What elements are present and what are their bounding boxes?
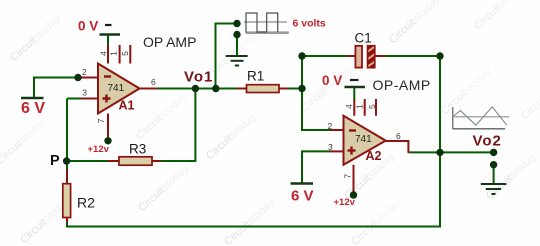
svg-text:P: P — [50, 153, 60, 169]
source ground terminal — [233, 31, 240, 38]
wire A2 output to Vo2 terminal — [408, 151, 493, 153]
power bar 6V (A2) — [291, 182, 314, 185]
minus sign A2 — [349, 129, 356, 131]
svg-text:R3: R3 — [129, 142, 146, 157]
node Vo1 — [192, 85, 199, 92]
svg-text:6 V: 6 V — [21, 100, 45, 117]
svg-text:2: 2 — [82, 67, 87, 77]
wire pin3 corner down to node P — [67, 99, 81, 162]
node +12v A1 — [104, 137, 111, 144]
wire A1 output to Vo1 and R1 — [157, 88, 238, 90]
pin 2 stub A2 — [330, 129, 344, 131]
earth ground below square-wave source — [226, 56, 248, 66]
wire 6V-A2 up to pin3 — [302, 151, 331, 182]
svg-text:0 V: 0 V — [322, 73, 342, 88]
svg-text:4: 4 — [344, 104, 354, 109]
wire C1 left rail — [302, 55, 348, 57]
svg-text:3: 3 — [82, 88, 87, 98]
wire C1 right rail — [384, 55, 440, 57]
svg-text:4: 4 — [99, 51, 109, 56]
op-amp U2 (A2 741) — [344, 116, 386, 165]
svg-text:1: 1 — [355, 104, 365, 109]
svg-text:+12v: +12v — [88, 144, 110, 155]
node Vo2 rail — [436, 149, 443, 156]
svg-text:Circuitstoday: Circuitstoday — [439, 65, 495, 117]
node C1 left rail — [298, 52, 305, 59]
wire A2 pin4 to 0V bar — [353, 87, 355, 100]
svg-text:Circuitstoday: Circuitstoday — [519, 70, 540, 122]
node R1/C1 left — [298, 85, 305, 92]
plus sign A1 — [103, 95, 111, 103]
svg-text:0 V: 0 V — [78, 19, 98, 34]
wire P to R3 left — [67, 160, 111, 162]
wire R3 right to feedback corner — [160, 89, 195, 162]
svg-text:6 volts: 6 volts — [293, 18, 326, 30]
svg-text:6 V: 6 V — [291, 188, 314, 205]
Vo2 terminal — [490, 149, 497, 156]
R3 stubs — [108, 160, 161, 162]
capacitor C1 left plate — [355, 46, 362, 68]
svg-text:2: 2 — [328, 121, 333, 131]
svg-text:6: 6 — [396, 131, 401, 141]
wire source ground stub — [236, 35, 238, 56]
minus sign A1 — [104, 75, 111, 77]
plus sign A2 — [348, 147, 356, 155]
node P — [63, 157, 70, 164]
square wave icon — [244, 13, 289, 33]
svg-text:R1: R1 — [247, 69, 264, 84]
svg-text:7: 7 — [96, 118, 106, 123]
pin 7 stub A2 — [353, 165, 355, 193]
svg-text:R2: R2 — [77, 195, 95, 211]
svg-text:Circuitstoday: Circuitstoday — [472, 0, 528, 32]
svg-text:Circuitstoday: Circuitstoday — [136, 162, 192, 214]
capacitor C1 right plate (hatched) — [368, 46, 375, 68]
pin 6 stub A1 — [140, 88, 159, 90]
svg-text:C1: C1 — [355, 31, 372, 46]
Vo2 ground terminal — [490, 161, 497, 168]
svg-text:7: 7 — [342, 174, 352, 179]
svg-text:1: 1 — [108, 51, 118, 56]
svg-text:Circuitstoday: Circuitstoday — [222, 196, 278, 246]
resistor R1 — [247, 85, 280, 93]
node C1 right rail — [436, 52, 443, 59]
0V symbol (A2) — [350, 79, 359, 81]
earth ground at Vo2 — [481, 184, 507, 194]
wire A1 pin4 to 0V bar — [107, 35, 109, 48]
0V symbol (A1) — [105, 24, 112, 26]
svg-text:OP-AMP: OP-AMP — [373, 77, 431, 93]
svg-text:Circuitstoday: Circuitstoday — [204, 110, 260, 162]
svg-text:Circuitstoday: Circuitstoday — [387, 0, 443, 46]
pin numbers A1 — [82, 51, 156, 123]
pins 4,1,5 stubs A1 — [108, 45, 130, 64]
pin 3 stub A1 — [81, 98, 98, 100]
svg-text:741: 741 — [108, 83, 125, 94]
pin numbers A2 — [328, 104, 402, 179]
svg-text:Circuitstoday: Circuitstoday — [0, 115, 50, 167]
svg-text:6: 6 — [151, 77, 156, 87]
resistor R3 — [119, 157, 152, 165]
svg-text:Circuitstoday: Circuitstoday — [349, 196, 405, 246]
resistor R2 — [63, 184, 71, 218]
R2 stubs — [66, 169, 68, 222]
svg-text:Vo2: Vo2 — [473, 133, 502, 150]
node +12v A2 — [350, 191, 357, 198]
wire node down to A2 pin2 — [302, 56, 331, 130]
pin 7 stub A1 — [107, 114, 109, 140]
source terminal — [233, 20, 240, 27]
wire Vo1 node up to square wave source — [216, 24, 238, 89]
pin 2 stub A1 — [78, 77, 98, 79]
op-amp U1 (A1 741) — [98, 64, 140, 114]
triangle wave icon — [453, 107, 509, 130]
node to source — [212, 85, 219, 92]
pin 6 stub A2 and drop to Vo2 rail — [386, 141, 409, 153]
svg-text:3: 3 — [328, 142, 333, 152]
svg-text:OP AMP: OP AMP — [143, 34, 196, 50]
svg-text:+12v: +12v — [334, 197, 356, 208]
power bar 6V (A1) — [21, 97, 44, 100]
svg-text:A2: A2 — [366, 149, 382, 163]
C1 stubs — [347, 55, 385, 57]
svg-text:5: 5 — [120, 51, 130, 56]
wire R1 right to node — [288, 88, 303, 90]
svg-text:5: 5 — [367, 104, 377, 109]
node pin2 junction — [74, 74, 81, 81]
svg-text:Circuitstoday: Circuitstoday — [8, 12, 64, 64]
svg-text:741: 741 — [355, 134, 372, 145]
wire P down through R2 to bottom rail — [67, 56, 440, 227]
wire 6V-A1 up to pin2 junction — [34, 78, 78, 99]
wire Vo2 ground stub — [493, 165, 495, 184]
svg-text:A1: A1 — [119, 99, 135, 113]
pin 3 stub A2 — [330, 150, 344, 152]
svg-text:Vo1: Vo1 — [184, 69, 213, 86]
R1 stubs — [237, 88, 289, 90]
pins 4,1,5 stubs A2 — [354, 99, 376, 116]
svg-text:Circuitstoday: Circuitstoday — [134, 90, 190, 142]
